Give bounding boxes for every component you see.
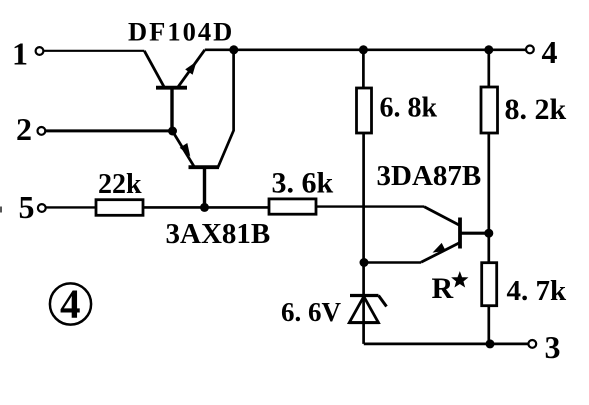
svg-text:3. 6k: 3. 6k: [272, 167, 334, 200]
transistor V2 3AX81B (lower of pair): [173, 132, 219, 207]
V1 emitter diagonal: [178, 50, 205, 88]
svg-text:6. 6V: 6. 6V: [281, 297, 342, 327]
V3 emitter arrow: [433, 243, 446, 253]
junction dot 4.7k bottom: [486, 339, 495, 348]
V1 collector diagonal: [144, 51, 164, 88]
wire 22k to 3.6k: [143, 206, 269, 209]
svg-text:DF104D: DF104D: [128, 17, 234, 47]
V3 collector diagonal: [424, 207, 460, 226]
wire from terminal 2: [46, 129, 173, 132]
svg-text:R: R: [432, 272, 454, 305]
V2 emitter diagonal: [173, 132, 195, 167]
zener triangle anode: [349, 297, 378, 323]
junction dot 8.2k top: [484, 45, 493, 54]
svg-text:4: 4: [60, 281, 81, 327]
junction dot zener node: [360, 258, 369, 267]
junction dot node A (base V1 / terminal 2): [168, 127, 177, 136]
resistor 8.2k: [481, 87, 498, 133]
V2 base bar: [189, 165, 220, 169]
star of R*: [453, 273, 466, 286]
svg-text:1: 1: [12, 36, 28, 72]
svg-text:3: 3: [545, 329, 561, 365]
junction dot 6.8k top: [359, 45, 368, 54]
wire right rail (8.2k / 4.7k branch): [487, 50, 490, 87]
zener cathode tab: [379, 296, 387, 307]
svg-text:6. 8k: 6. 8k: [380, 93, 438, 124]
wire top rail: [205, 48, 526, 51]
V3 base bar: [458, 218, 462, 249]
svg-text:4: 4: [542, 34, 558, 70]
resistor 22k: [96, 200, 143, 216]
zener diode 6.6V: [349, 296, 387, 323]
wire right vertical from rail to Q2 collector: [218, 50, 234, 167]
svg-text:3DA87B: 3DA87B: [377, 160, 482, 192]
V2 emitter arrow: [180, 143, 191, 157]
zener anode base bar: [349, 321, 380, 324]
wire from terminal 5 to 22k: [46, 206, 96, 208]
scan smudge left edge: [0, 207, 2, 213]
V1 base bar: [156, 86, 187, 90]
V3 emitter diagonal: [421, 243, 460, 263]
junction dot V2 base node: [200, 203, 209, 212]
resistor 4.7k: [482, 263, 497, 306]
transistor V3 3DA87B: [421, 207, 489, 263]
svg-text:8. 2k: 8. 2k: [505, 93, 567, 126]
V2 base lead: [203, 167, 206, 207]
figure number circle 4: [50, 283, 91, 324]
svg-text:4. 7k: 4. 7k: [507, 275, 568, 307]
V3 base lead: [460, 232, 489, 235]
wire left vertical rail (6.8k / zener branch): [362, 50, 365, 88]
junction dot V3 base / divider: [484, 229, 493, 238]
resistor 6.8k: [357, 88, 372, 133]
transistor V1 DF104D (upper): [144, 50, 205, 131]
wire 3.6k to V3 collector: [316, 205, 424, 207]
wire from terminal 1: [44, 50, 145, 52]
resistor 3.6k: [269, 199, 316, 214]
V1 emitter arrow: [185, 62, 196, 75]
wire V3 emitter to zener node: [364, 261, 421, 264]
V1 base lead: [170, 88, 173, 131]
svg-text:5: 5: [19, 189, 35, 225]
svg-text:3AX81B: 3AX81B: [166, 218, 271, 250]
junction dot rail / V2 collector: [229, 45, 238, 54]
wire bottom rail: [364, 342, 529, 345]
svg-text:2: 2: [16, 111, 32, 147]
svg-text:22k: 22k: [98, 169, 142, 200]
zener cathode bar: [350, 294, 379, 297]
